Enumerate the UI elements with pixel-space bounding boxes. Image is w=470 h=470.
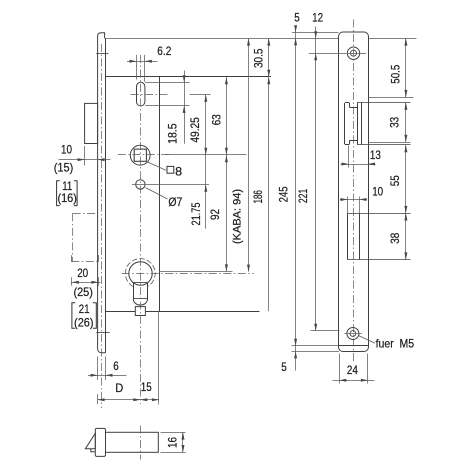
dimension 30.5 line bbox=[251, 38, 270, 311]
dimension 18.5 slot length bbox=[165, 71, 185, 144]
latch cutout lip top line bbox=[357, 102, 410, 104]
lock case right edge bbox=[159, 77, 161, 311]
lock case top edge bbox=[106, 76, 272, 78]
svg-text:21: 21 bbox=[79, 302, 90, 316]
dimension 6.2 slot width bbox=[127, 44, 172, 82]
svg-text:6: 6 bbox=[113, 359, 119, 373]
detail centerline bbox=[140, 426, 142, 460]
svg-text:12: 12 bbox=[312, 10, 323, 24]
dimension 49.25 and 21.75 line bbox=[188, 94, 207, 228]
extension line 221 bottom bbox=[311, 330, 340, 332]
svg-text:24: 24 bbox=[347, 363, 358, 377]
detail latch bevel bbox=[85, 433, 95, 451]
svg-text:10: 10 bbox=[61, 142, 72, 156]
faceplate centerline bbox=[101, 44, 103, 408]
dimension 16 detail height bbox=[161, 432, 186, 452]
leader and label diameter 7 bbox=[146, 188, 183, 210]
svg-text:5: 5 bbox=[294, 11, 300, 25]
extension line oval top bbox=[145, 82, 189, 84]
strike plate centerline bbox=[353, 20, 355, 362]
svg-text:6.2: 6.2 bbox=[157, 44, 171, 58]
faceplate top screw hole mark bbox=[96, 53, 108, 55]
detail lock body bbox=[106, 432, 159, 452]
svg-text:63: 63 bbox=[210, 114, 224, 125]
extension line 50.5 bottom bbox=[369, 97, 414, 99]
svg-text:92: 92 bbox=[208, 209, 222, 220]
svg-text:(KABA: 94): (KABA: 94) bbox=[232, 189, 244, 244]
extension line follower center right bbox=[165, 154, 247, 156]
svg-text:(16): (16) bbox=[57, 191, 77, 205]
follower circle bbox=[130, 145, 150, 165]
svg-text:16: 16 bbox=[165, 437, 179, 448]
svg-text:(25): (25) bbox=[73, 285, 93, 299]
vertical centerline lock axis bbox=[140, 55, 142, 404]
dimension 50.5 bbox=[388, 38, 407, 97]
dimension 24 plate width bbox=[333, 354, 375, 384]
latch cutout opening bbox=[345, 102, 362, 145]
follower square 8mm bbox=[134, 149, 146, 161]
extension line 33 bottom bbox=[369, 142, 411, 144]
svg-text:186: 186 bbox=[251, 190, 265, 204]
annotation KABA 94 bbox=[232, 189, 244, 244]
extension line oval center right bbox=[190, 94, 211, 96]
svg-text:15: 15 bbox=[141, 380, 152, 394]
extension line plate top right bbox=[368, 38, 416, 40]
dimension 33 bbox=[388, 102, 408, 142]
strike plate bend line bbox=[339, 345, 368, 347]
extension line plate bottom left bbox=[292, 351, 339, 353]
dimension 63 and 92 line bbox=[208, 77, 228, 271]
dimension 5 bottom bbox=[281, 346, 297, 374]
svg-text:fuer M5: fuer M5 bbox=[376, 337, 415, 351]
cylinder fixing screw block bbox=[135, 307, 145, 316]
dimension 10 deadbolt cutout width bbox=[340, 185, 383, 214]
svg-text:(26): (26) bbox=[74, 316, 94, 330]
extension line 15 behind axis bbox=[158, 311, 160, 404]
leader and label fuer M5 bbox=[359, 336, 415, 351]
dimension D backset and 15 bbox=[98, 380, 159, 404]
svg-text:49.25: 49.25 bbox=[188, 117, 202, 143]
dimension 5 top and 245 bbox=[277, 11, 300, 346]
svg-text:13: 13 bbox=[370, 148, 381, 162]
lock case bottom edge bbox=[106, 311, 260, 313]
svg-text:245: 245 bbox=[277, 186, 291, 202]
svg-text:8: 8 bbox=[175, 164, 182, 178]
svg-text:21.75: 21.75 bbox=[189, 202, 203, 225]
strike plate outline bbox=[339, 32, 369, 352]
annotation 11 (16) bracket bbox=[57, 179, 78, 205]
follower centerline bbox=[118, 154, 169, 156]
bottom screw hole bbox=[344, 328, 361, 340]
oval slot centerline bbox=[131, 94, 169, 96]
dimension 6 faceplate tail width bbox=[88, 357, 127, 381]
svg-text:10: 10 bbox=[372, 185, 383, 199]
extension line hole7 right bbox=[151, 184, 210, 186]
detail faceplate bar bbox=[95, 428, 105, 456]
faceplate (Stulp) front view bbox=[98, 33, 106, 353]
dimension 20 cylinder protrusion bbox=[71, 266, 100, 286]
dimension 10 (15) latch protrusion bbox=[54, 142, 111, 174]
annotation 21 (26) bracket bbox=[72, 302, 96, 330]
annotation (25) bbox=[73, 285, 93, 299]
top reference line bbox=[105, 38, 339, 40]
svg-text:18.5: 18.5 bbox=[165, 123, 179, 144]
svg-text:55: 55 bbox=[388, 175, 402, 186]
extension line plate top left bbox=[292, 32, 339, 34]
dimension 12 top and 221 bbox=[296, 10, 323, 330]
svg-text:50.5: 50.5 bbox=[388, 64, 402, 83]
oval slot cutout bbox=[137, 82, 145, 106]
svg-text:221: 221 bbox=[296, 188, 310, 203]
svg-text:20: 20 bbox=[77, 266, 88, 280]
dimension 186 line bbox=[247, 38, 265, 271]
euro profile cylinder hole bbox=[129, 262, 152, 305]
dimension 55 bbox=[388, 145, 407, 213]
phantom circle KABA cylinder bbox=[125, 259, 155, 287]
top screw hole bbox=[346, 47, 366, 59]
leader and label square 8 bbox=[147, 162, 182, 179]
svg-text:Ø7: Ø7 bbox=[168, 195, 182, 209]
extension line bend left bbox=[292, 345, 339, 347]
svg-text:(15): (15) bbox=[54, 161, 74, 175]
dimension 13 latch cutout width bbox=[341, 146, 382, 168]
latch cutout lip bottom line bbox=[357, 144, 410, 146]
deadbolt cutout bbox=[348, 213, 411, 260]
phantom cylinder protrusion outline bbox=[71, 213, 99, 261]
extension line oval bottom bbox=[145, 105, 189, 107]
svg-text:D: D bbox=[115, 381, 123, 395]
faceplate bottom screw hole mark bbox=[96, 332, 110, 334]
svg-text:38: 38 bbox=[388, 233, 402, 244]
extension line cylinder center right bbox=[159, 271, 233, 273]
hole 7mm bbox=[136, 180, 145, 189]
svg-text:5: 5 bbox=[281, 360, 287, 374]
hole7 centerline bbox=[132, 184, 151, 186]
svg-text:30.5: 30.5 bbox=[251, 48, 265, 68]
svg-text:33: 33 bbox=[388, 117, 402, 128]
dimension 38 bbox=[388, 213, 407, 260]
cylinder centerline bbox=[122, 273, 254, 275]
latch bolt bbox=[85, 103, 98, 143]
extension line hole center left bbox=[309, 53, 346, 55]
